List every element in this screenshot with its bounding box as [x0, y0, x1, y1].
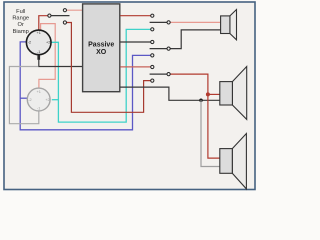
wire cyan +2 J1 down and around to terminal T3: [51, 29, 151, 122]
jumper bar T2: [150, 21, 167, 23]
wire dark lever from switch A: [51, 15, 70, 17]
wire indianred XO to terminal T7: [120, 66, 150, 68]
terminal T6: [151, 54, 154, 57]
XO block U1: [83, 4, 120, 92]
svg-text:-1: -1: [37, 50, 40, 54]
wire gray faded -1 J2 loop: [9, 67, 38, 124]
speaker SP3 woofer2: [220, 134, 247, 189]
terminal T2: [167, 21, 170, 24]
switch terminal C: [63, 21, 66, 24]
wire red T8 to woofers +: [170, 74, 220, 158]
terminal T1: [151, 14, 154, 17]
wire salmon +1 J1 over to J2 +1: [39, 24, 55, 88]
svg-text:XO: XO: [96, 49, 107, 56]
wire pink switch B to XO input: [66, 9, 82, 11]
svg-text:Full: Full: [16, 9, 25, 15]
speaker SP2 woofer1: [220, 67, 247, 120]
svg-text:-1: -1: [37, 107, 40, 111]
svg-text:Biamp: Biamp: [13, 29, 29, 35]
wire blue branch to J2 -2: [20, 97, 27, 99]
connector J2 (speakON link, unused): [27, 88, 50, 111]
page background: [0, 0, 259, 194]
terminal T9: [151, 79, 154, 82]
wire dark T5 to tweeter -: [170, 30, 220, 49]
svg-text:-2: -2: [28, 98, 31, 102]
wire pink T2 to tweeter +: [170, 21, 220, 23]
junction dot black: [199, 99, 203, 103]
svg-text:+1: +1: [37, 31, 41, 35]
svg-text:Or: Or: [18, 22, 24, 28]
wire red switch C down and around to terminal T9: [66, 23, 150, 113]
terminal T4: [151, 40, 154, 43]
connector J1 pin stub: [37, 54, 40, 60]
terminal T7: [151, 65, 154, 68]
svg-text:+2: +2: [45, 98, 49, 102]
svg-text:-2: -2: [28, 40, 31, 44]
wire dark XO low- to woofers: [120, 87, 220, 100]
terminal T3: [151, 28, 154, 31]
terminal T8: [167, 73, 170, 76]
svg-text:+1: +1: [37, 90, 41, 94]
switch terminal B: [63, 9, 66, 12]
svg-text:Range: Range: [12, 16, 29, 22]
switch terminal A: [48, 14, 51, 17]
label "Full Range Or Biamp": [12, 9, 29, 35]
wire red +1 J1 up to switch A: [39, 16, 48, 31]
svg-text:+2: +2: [46, 40, 50, 44]
svg-text:Passive: Passive: [88, 41, 114, 48]
junction dot red: [206, 92, 210, 96]
wire red XO high+ to terminal T1: [120, 15, 150, 17]
wire dark XO to terminal T4: [120, 41, 150, 43]
wire gray faded woofer2 -: [201, 100, 220, 166]
connector J1 (speakON input): [26, 30, 51, 55]
jumper bar T5: [150, 48, 167, 50]
wire dark -1 J1 to XO block: [39, 60, 83, 67]
terminal T5: [167, 47, 170, 50]
speaker SP1 tweeter: [221, 10, 237, 40]
wire blue -2 J1 down and around to terminal T6: [20, 42, 150, 130]
wire cyan stub to J2 +2: [52, 99, 59, 101]
jumper bar T8: [150, 73, 167, 75]
